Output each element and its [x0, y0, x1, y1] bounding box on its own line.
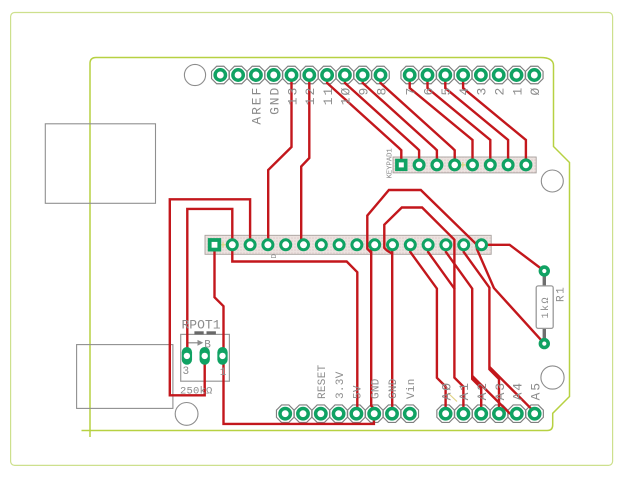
- mid header pad 4 ring: [263, 240, 273, 250]
- svg-text:B: B: [204, 340, 211, 352]
- pad ring digital pad 1: [511, 70, 521, 80]
- mid header pad 9 ring: [352, 240, 362, 250]
- header digital pin pad: [454, 66, 472, 84]
- pad ring digital pad 4: [458, 70, 468, 80]
- analog header pad: [472, 405, 490, 423]
- pad ring power pad Vin: [405, 409, 415, 419]
- header digital pin pad: [437, 66, 455, 84]
- header digital pin pad: [526, 66, 544, 84]
- mounting hole H4: [175, 403, 198, 426]
- pad ring analog pad A1: [458, 409, 468, 419]
- svg-text:5V: 5V: [353, 385, 365, 399]
- svg-text:1kΩ: 1kΩ: [540, 296, 552, 319]
- header JP-top pin pad: [247, 66, 265, 84]
- power header pad: [330, 405, 348, 423]
- wire mid11 to GND2: [391, 245, 393, 414]
- RPOT1 pad 1: [217, 347, 227, 365]
- pad ring JP-top pad 9: [358, 70, 368, 80]
- keypad pad 3 ring: [432, 160, 442, 170]
- pad ring analog pad A5: [529, 409, 539, 419]
- wire A2 junction to A4: [472, 376, 510, 414]
- wire D10 to keypad2: [345, 75, 419, 165]
- pad ring JP-top pad 2: [233, 70, 243, 80]
- ratsnest yellow: [459, 162, 467, 168]
- pad ring JP-top pad 3: [251, 70, 261, 80]
- svg-text:1Ø: 1Ø: [339, 86, 354, 105]
- header digital pin pad: [419, 66, 437, 84]
- mid header pad 10 ring: [370, 240, 380, 250]
- mid header pad 11 ring: [388, 240, 398, 250]
- wire D5 to keypad7: [445, 75, 508, 165]
- svg-text:RPOT1: RPOT1: [182, 318, 221, 333]
- wire GND arch to R1 bottom: [367, 190, 544, 344]
- mid header pad 12 ring: [405, 240, 415, 250]
- keypad KEYPAD1 strip: [393, 157, 536, 173]
- mid header pad 8 ring: [334, 240, 344, 250]
- wire D6 to keypad6: [428, 75, 491, 165]
- RPOT1 pad wiper: [200, 347, 210, 365]
- svg-text:KEYPAD1: KEYPAD1: [387, 148, 395, 179]
- wire D8 to keypad4: [381, 75, 455, 165]
- svg-text:A2: A2: [475, 381, 490, 400]
- svg-text:D: D: [271, 254, 279, 259]
- keypad pad 8 ring: [521, 160, 531, 170]
- svg-text:Ø: Ø: [528, 86, 543, 96]
- pad ring analog pad A2: [476, 409, 486, 419]
- svg-text:AØ: AØ: [439, 381, 454, 400]
- pad ring JP-top pad 7: [322, 70, 332, 80]
- RPOT1 tab right: [207, 331, 216, 334]
- header JP-top pin pad: [301, 66, 319, 84]
- mounting hole H2: [541, 170, 563, 192]
- pad ring power pad GND2: [387, 409, 397, 419]
- header JP-top pin pad: [283, 66, 301, 84]
- svg-text:1: 1: [510, 86, 525, 96]
- USB connector outline: [45, 124, 155, 204]
- power header pad: [312, 405, 330, 423]
- pad ring digital pad 0: [529, 70, 539, 80]
- RPOT1 tab left: [194, 331, 203, 334]
- mounting hole H3: [541, 366, 564, 389]
- svg-text:R1: R1: [556, 286, 568, 302]
- RPOT1 wiper arrow: [188, 342, 199, 344]
- pad ring power pad GND: [369, 409, 379, 419]
- keypad pad 5 ring: [468, 160, 478, 170]
- wire mid1 to RPOT1 pin1 to GND: [215, 245, 374, 424]
- svg-text:3: 3: [475, 86, 490, 96]
- wire mid10 to GND: [371, 245, 375, 414]
- R1 resistor body: [536, 286, 553, 329]
- wire D9 to keypad3: [363, 75, 437, 165]
- keypad pin1 square pad: [395, 159, 407, 171]
- analog header pad: [490, 405, 508, 423]
- header JP-top pin pad: [265, 66, 283, 84]
- svg-text:3: 3: [183, 366, 190, 378]
- pad ring JP-top pad 5: [286, 70, 296, 80]
- wire mid2 to 5V: [232, 245, 357, 414]
- svg-text:2: 2: [493, 86, 508, 96]
- svg-text:250kΩ: 250kΩ: [180, 386, 213, 398]
- analog header pad: [455, 405, 473, 423]
- svg-text:7: 7: [404, 86, 419, 96]
- wire GND2 arch to mid15 gap: [384, 208, 454, 290]
- mounting hole H1: [184, 64, 205, 85]
- power header pad: [276, 405, 294, 423]
- power header pad: [401, 405, 419, 423]
- pad ring analog pad A0: [440, 409, 450, 419]
- PCB board outline: [82, 58, 570, 438]
- pad ring analog pad A3: [494, 409, 504, 419]
- header digital pin pad: [508, 66, 526, 84]
- R1 resistor leads: [543, 271, 546, 344]
- pad ring JP-top pad 6: [304, 70, 314, 80]
- keypad pad 2 ring: [414, 160, 424, 170]
- pad ring power pad 1: [280, 409, 290, 419]
- svg-text:3.3V: 3.3V: [335, 371, 347, 399]
- mid header pad 2 ring: [227, 240, 237, 250]
- mid header pad 16 ring: [477, 240, 487, 250]
- wire mid12 to A0: [410, 245, 445, 414]
- mid header pad 7 ring: [316, 240, 326, 250]
- svg-text:5: 5: [439, 86, 454, 96]
- svg-text:4: 4: [457, 86, 472, 96]
- wire mid15 to A3: [464, 245, 499, 414]
- pad ring JP-top pad 1: [215, 70, 225, 80]
- wire D13 to mid4: [268, 75, 291, 245]
- mid header pad 6 ring: [299, 240, 309, 250]
- header JP-top pin pad: [354, 66, 372, 84]
- analog header pad: [526, 405, 544, 423]
- RPOT1 pad 3: [182, 347, 192, 365]
- svg-text:A5: A5: [528, 381, 543, 400]
- mid header pad 13 ring: [423, 240, 433, 250]
- header JP-top pin pad: [229, 66, 247, 84]
- wire mid16 to R1 top: [482, 245, 545, 271]
- analog header pad: [437, 405, 455, 423]
- wire D4 to keypad8: [463, 75, 526, 165]
- power header pad: [294, 405, 312, 423]
- pad ring digital pad 3: [476, 70, 486, 80]
- wire mid2 loop to RPOT1 pin3: [187, 209, 232, 356]
- analog header pad: [508, 405, 526, 423]
- header digital pin pad: [472, 66, 490, 84]
- svg-text:GND: GND: [370, 378, 382, 399]
- svg-text:6: 6: [421, 86, 436, 96]
- header digital pin pad: [401, 66, 419, 84]
- header JP-top pin pad: [212, 66, 230, 84]
- header JP-top pin pad: [318, 66, 336, 84]
- svg-text:GND: GND: [268, 86, 283, 115]
- svg-text:A1: A1: [457, 381, 472, 400]
- pad ring JP-top pad 10: [375, 70, 385, 80]
- power header pad: [365, 405, 383, 423]
- header JP-top pin pad: [336, 66, 354, 84]
- svg-text:A3: A3: [493, 381, 508, 400]
- header JP-top pin pad: [372, 66, 390, 84]
- wire D7 to keypad5: [410, 75, 473, 165]
- pad ring digital pad 5: [440, 70, 450, 80]
- mid header pad 3 ring: [245, 240, 255, 250]
- wire A3 junction to A5: [489, 367, 530, 408]
- pad ring digital pad 7: [405, 70, 415, 80]
- svg-text:A4: A4: [511, 381, 526, 400]
- power header pad: [383, 405, 401, 423]
- svg-text:11: 11: [321, 86, 336, 105]
- power jack outline: [77, 345, 173, 409]
- keypad pad 4 ring: [450, 160, 460, 170]
- pad ring digital pad 2: [494, 70, 504, 80]
- svg-text:1: 1: [220, 367, 227, 379]
- svg-text:8: 8: [374, 86, 389, 96]
- pad ring analog pad A4: [512, 409, 522, 419]
- pad ring power pad 3.3V: [333, 409, 343, 419]
- RPOT1 potentiometer outline: [181, 334, 230, 381]
- mid header pad 14 ring: [441, 240, 451, 250]
- pad ring power pad 5V: [351, 409, 361, 419]
- power header pad: [348, 405, 366, 423]
- svg-text:13: 13: [285, 86, 300, 105]
- wire D11 to keypad1: [327, 75, 401, 165]
- mid header pin1 square pad: [208, 238, 221, 251]
- wire D12 to mid6: [301, 75, 309, 245]
- R1 pad bottom: [540, 340, 548, 348]
- header digital pin pad: [490, 66, 508, 84]
- middle header JP1 strip: [205, 235, 491, 254]
- pad ring JP-top pad 4: [269, 70, 279, 80]
- svg-text:RESET: RESET: [317, 364, 329, 399]
- R1 pad top: [540, 267, 548, 275]
- mid header pad 5 ring: [281, 240, 291, 250]
- svg-text:9: 9: [357, 86, 372, 96]
- svg-text:GND: GND: [388, 378, 400, 399]
- pad ring power pad 2: [298, 409, 308, 419]
- keypad pad 6 ring: [485, 160, 495, 170]
- mid header pad 15 ring: [459, 240, 469, 250]
- svg-text:12: 12: [303, 86, 318, 105]
- pad ring JP-top pad 8: [340, 70, 350, 80]
- keypad pad 7 ring: [503, 160, 513, 170]
- wire mid14 to A2: [446, 245, 481, 414]
- pad ring power pad RESET: [316, 409, 326, 419]
- pad ring digital pad 6: [422, 70, 432, 80]
- svg-text:AREF: AREF: [250, 86, 265, 125]
- svg-text:Vin: Vin: [406, 378, 418, 399]
- wire mid3 loop to RPOT1 wiper: [170, 199, 250, 395]
- wire mid13 to A1: [428, 245, 463, 414]
